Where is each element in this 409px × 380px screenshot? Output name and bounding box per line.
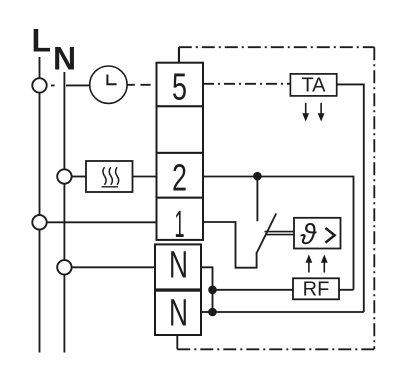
svg-text:5: 5 xyxy=(172,67,187,109)
heater / heating element symbol xyxy=(86,161,133,192)
wire terminal N1 right xyxy=(201,267,213,312)
wire N rail xyxy=(63,72,65,353)
junction dot on 2-line xyxy=(253,172,262,181)
svg-text:2: 2 xyxy=(172,158,187,200)
switch fixed contact from node on 2-line xyxy=(256,177,258,222)
terminal box 5 xyxy=(157,63,204,109)
wire L to clock (dash-dot) xyxy=(51,84,90,86)
switch blade xyxy=(257,214,276,253)
dash-dot wire terminal 5 to TA xyxy=(203,83,290,85)
terminal box N1 xyxy=(155,244,201,289)
terminal circle on N rail (to N) xyxy=(57,260,71,274)
terminal block stem top xyxy=(178,47,180,63)
wire L rail xyxy=(39,57,41,353)
wire N junction to TA vertical xyxy=(213,311,364,313)
wire TA to N line xyxy=(337,84,364,312)
svg-text:TA: TA xyxy=(301,75,326,97)
svg-text:RF: RF xyxy=(303,279,330,301)
wire terminal N2 right xyxy=(201,311,213,313)
wire heater to terminal 2 xyxy=(133,176,157,178)
svg-text:N: N xyxy=(169,245,188,287)
terminal circle on L rail (top) xyxy=(32,78,46,92)
wire RF right to 2-line vertical xyxy=(339,289,354,291)
svg-text:ϑ: ϑ xyxy=(300,219,317,251)
terminal circle on L rail (to 1) xyxy=(32,215,46,229)
terminal box 2 xyxy=(157,153,204,200)
wire N to terminal N1 xyxy=(72,266,157,268)
junction dot N-RF xyxy=(208,286,217,295)
svg-text:N: N xyxy=(53,41,76,77)
junction dot N-TA xyxy=(208,308,217,317)
terminal box N2 xyxy=(155,291,201,335)
terminal circle on N rail (heater) xyxy=(57,169,71,183)
device boundary (dash-dot outline) xyxy=(177,47,375,349)
TA box (external timer input) xyxy=(290,74,336,97)
wire clock to terminal 5 (dash-dot) xyxy=(127,84,151,86)
wire terminal 2 to RF-right (via top right) xyxy=(203,177,354,290)
terminal box 1 xyxy=(157,198,204,246)
wire terminal 1 to switch blade (jog) xyxy=(203,222,257,268)
wire N to heater xyxy=(72,176,86,178)
clock symbol (external timer) xyxy=(90,66,127,103)
svg-text:1: 1 xyxy=(175,204,185,246)
RF feedback arrows (up) xyxy=(306,255,328,273)
RF box (feedback resistor) xyxy=(293,278,339,300)
wire L to terminal 1 xyxy=(47,221,157,223)
svg-text:N: N xyxy=(169,293,188,335)
thermostat box U1 (theta >) xyxy=(294,218,341,251)
wire RF to N junction xyxy=(213,289,294,291)
terminal box blank xyxy=(157,106,204,153)
svg-text:L: L xyxy=(32,23,52,59)
mechanical link double line to thermostat xyxy=(265,232,295,235)
TA arrows (down) xyxy=(302,103,324,122)
